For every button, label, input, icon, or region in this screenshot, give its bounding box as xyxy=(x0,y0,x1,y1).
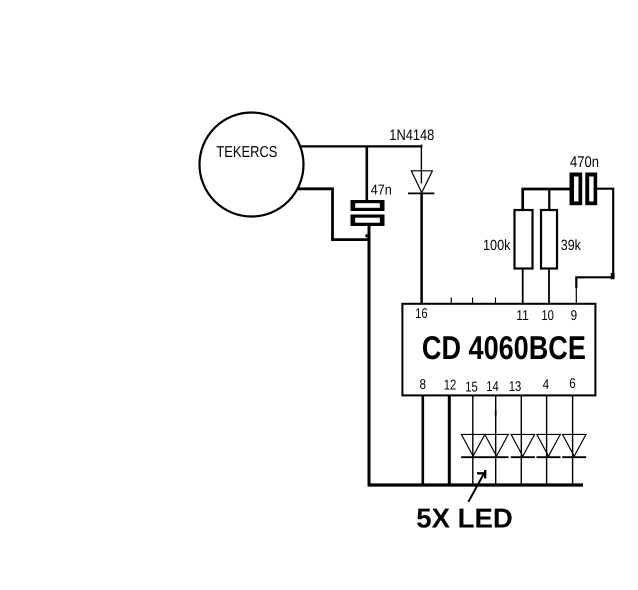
LED D5 triangle xyxy=(537,434,561,456)
svg-text:TEKERCS: TEKERCS xyxy=(216,144,277,161)
diode D1 1N4148 triangle xyxy=(411,171,432,193)
bottom bus wire xyxy=(368,483,583,486)
svg-text:8: 8 xyxy=(420,377,427,393)
svg-text:CD 4060BCE: CD 4060BCE xyxy=(422,329,586,366)
wire pin 9 thin lead xyxy=(575,287,577,305)
IC top stub pin b xyxy=(472,298,474,304)
wire pin 12 down to bus xyxy=(448,396,451,485)
wire 47n bottom down to bus xyxy=(368,226,371,485)
svg-text:6: 6 xyxy=(569,376,576,392)
LED D3 cathode bar xyxy=(485,456,509,458)
capacitor C2 470n left plate xyxy=(570,173,583,206)
IC top stub pin a xyxy=(450,298,452,304)
junction dot below 47n xyxy=(365,234,368,237)
svg-text:13: 13 xyxy=(509,379,522,395)
svg-text:15: 15 xyxy=(465,380,478,396)
svg-text:9: 9 xyxy=(571,308,578,324)
resistor R1 100k body xyxy=(515,210,533,269)
resistor R2 39k body xyxy=(541,210,557,269)
svg-text:470n: 470n xyxy=(570,154,599,171)
arrow head vertical stroke xyxy=(484,470,486,478)
svg-text:10: 10 xyxy=(541,308,554,324)
capacitor C1 47n bottom plate xyxy=(351,215,385,227)
svg-text:39k: 39k xyxy=(561,238,582,254)
wire 47n top lead xyxy=(365,146,368,201)
svg-text:16: 16 xyxy=(415,306,428,322)
arrow head horizontal stroke xyxy=(477,472,486,474)
wire corner blob xyxy=(611,273,615,279)
svg-text:14: 14 xyxy=(486,379,499,395)
coil L1 TEKERCS circle xyxy=(200,113,304,217)
svg-text:4: 4 xyxy=(543,377,550,393)
svg-text:47n: 47n xyxy=(371,182,392,198)
wire pin 14 overlap blob xyxy=(495,411,497,417)
LED D5 cathode bar xyxy=(537,456,561,458)
diode D1 cathode bar xyxy=(408,192,434,194)
wire pin 6 down through LED5 xyxy=(572,396,574,484)
wire coil bottom zigzag to 47n bottom xyxy=(297,189,369,240)
wire pin 13 down through LED3 xyxy=(520,396,522,484)
svg-text:1N4148: 1N4148 xyxy=(389,127,434,144)
wire coil top to diode xyxy=(301,145,423,147)
LED D2 cathode bar xyxy=(461,456,485,458)
wire pin 15 down through LED1 xyxy=(472,396,474,484)
svg-text:12: 12 xyxy=(444,378,457,394)
IC top stub pin c xyxy=(495,298,497,304)
wire 39k top lead xyxy=(548,189,550,211)
capacitor C2 470n right plate xyxy=(585,173,597,206)
svg-text:11: 11 xyxy=(516,308,529,324)
diode D1 anode wire xyxy=(420,145,422,184)
arrow shaft to LEDs xyxy=(468,474,483,502)
capacitor C1 47n top plate xyxy=(351,200,385,211)
wire diode cathode to pin 16 xyxy=(420,193,423,304)
wire pin 4 down through LED4 xyxy=(546,396,548,484)
LED D2 triangle xyxy=(461,434,485,456)
wire rail corner above 100k to 470n left plate xyxy=(523,189,570,211)
IC U1 CD4060 box xyxy=(402,304,595,396)
wire 100k bottom to pin 11 xyxy=(522,268,524,304)
LED D6 cathode bar xyxy=(562,456,586,458)
wire 39k bottom to pin 10 xyxy=(548,268,550,304)
wire 470n right jog down to pin 9 xyxy=(576,189,613,288)
svg-text:100k: 100k xyxy=(483,238,511,254)
LED D4 triangle xyxy=(511,434,534,456)
wire pin 14 down through LED2 xyxy=(495,396,497,484)
LED D4 cathode bar xyxy=(511,456,535,458)
LED D6 triangle xyxy=(563,434,587,456)
svg-text:5X LED: 5X LED xyxy=(416,503,513,534)
LED D3 triangle xyxy=(485,434,509,456)
wire pin 8 down to bus xyxy=(421,396,424,485)
